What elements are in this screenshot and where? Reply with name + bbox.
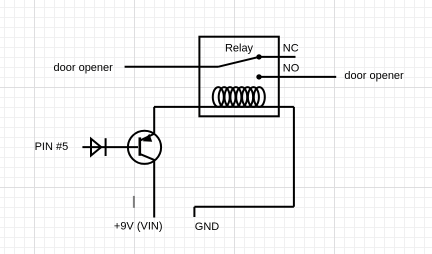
svg-text:GND: GND: [195, 221, 220, 233]
relay switch arm (common to NC): [218, 57, 259, 67]
wire: GND stub: [193, 207, 195, 217]
svg-text:door opener: door opener: [54, 62, 114, 74]
relay coil L1: [213, 87, 265, 107]
wire: coil line from transistor top to right bend: [154, 106, 294, 108]
transistor Q1 (PNP): [128, 107, 161, 218]
cursor mark (gray dash): [133, 196, 135, 208]
svg-text:Relay: Relay: [225, 42, 254, 54]
wire: horizontal to GND stub: [194, 206, 294, 208]
svg-text:NO: NO: [283, 62, 300, 74]
svg-text:door opener: door opener: [344, 70, 404, 82]
svg-text:NC: NC: [283, 43, 299, 55]
svg-text:PIN #5: PIN #5: [35, 141, 69, 153]
junction dot NC: [256, 54, 261, 59]
relay K1 outline box: [199, 37, 278, 117]
wire: right vertical from coil line down: [293, 107, 295, 207]
diode D1: [91, 138, 106, 156]
wire: left door opener to relay common: [125, 66, 218, 68]
svg-text:+9V (VIN): +9V (VIN): [114, 221, 163, 233]
wire NC: [259, 56, 296, 58]
wire: PIN #5 to diode and to transistor base: [82, 146, 138, 148]
junction dot NO: [256, 74, 261, 79]
wire NO: [259, 76, 336, 78]
